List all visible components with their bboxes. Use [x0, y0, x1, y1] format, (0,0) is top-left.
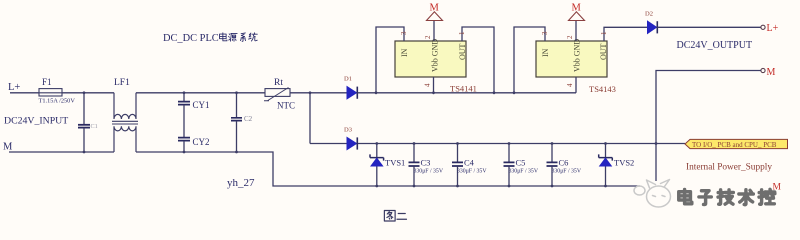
bottom rail (M) — [9, 152, 762, 186]
svg-text:OUT: OUT — [599, 43, 608, 60]
capacitor CY1 — [178, 93, 210, 137]
svg-text:Vbb GND: Vbb GND — [431, 39, 440, 72]
svg-text:OUT: OUT — [458, 43, 467, 60]
svg-text:CY2: CY2 — [193, 137, 210, 147]
svg-text:4: 4 — [424, 83, 432, 87]
watermark text 电子技术控 — [679, 189, 775, 204]
svg-text:IN: IN — [541, 48, 550, 57]
junction C1 top — [83, 91, 86, 94]
pin 2 wire (GND2) — [575, 21, 577, 42]
top winding — [114, 93, 136, 119]
terminal L+ output — [761, 23, 779, 34]
junction C1 bottom — [83, 151, 86, 154]
second rail — [310, 143, 685, 145]
svg-text:2: 2 — [424, 35, 432, 39]
svg-text:C3: C3 — [421, 158, 431, 168]
regulator U2 TS4143 — [536, 39, 616, 94]
pin 3 wire (IN2) — [514, 27, 545, 93]
svg-text:yh_27: yh_27 — [227, 177, 255, 189]
svg-text:C5: C5 — [516, 158, 526, 168]
capacitor C5 — [504, 142, 539, 186]
junction verticals bottom rail — [375, 185, 378, 188]
svg-text:Vbb GND: Vbb GND — [573, 39, 582, 72]
svg-text:L+: L+ — [8, 82, 20, 93]
svg-text:M: M — [773, 183, 782, 193]
svg-text:T1.15A /250V: T1.15A /250V — [39, 98, 76, 105]
junction cross at 656 — [655, 142, 658, 145]
regulator U1 TS4141 — [395, 39, 477, 94]
pin 2 wire (GND) — [433, 21, 435, 42]
svg-text:Rt: Rt — [274, 78, 283, 88]
wire tap down to second rail — [309, 93, 311, 144]
svg-text:M: M — [430, 3, 440, 14]
svg-text:IN: IN — [400, 48, 409, 57]
terminal M output — [761, 67, 776, 78]
svg-text:C2: C2 — [244, 115, 253, 123]
junction C2 top — [235, 91, 238, 94]
svg-text:M: M — [572, 3, 582, 14]
svg-text:330μF / 35V: 330μF / 35V — [552, 169, 582, 175]
power symbol M (U2) — [569, 3, 585, 21]
svg-text:3: 3 — [400, 31, 408, 35]
junction second-rail tap — [309, 91, 312, 94]
svg-text:1: 1 — [458, 31, 466, 35]
thermistor Rt — [264, 78, 295, 111]
wire L+ to fuse — [10, 92, 39, 94]
svg-text:TVS2: TVS2 — [614, 158, 634, 168]
capacitor C4 — [452, 142, 487, 186]
wire M terminal down to bottom rail — [656, 71, 761, 187]
wire D2 to L+ terminal — [657, 26, 760, 28]
svg-text:DC_DC PLC: DC_DC PLC — [163, 33, 219, 44]
wire Rt to D1 — [290, 92, 347, 94]
wire LF1 to Rt — [136, 92, 265, 94]
wire D1 to rail end — [357, 92, 576, 94]
capacitor C6 — [547, 142, 582, 186]
bottom winding — [114, 126, 136, 152]
svg-text:TS4143: TS4143 — [589, 84, 616, 94]
svg-text:Internal Power_Supply: Internal Power_Supply — [686, 163, 772, 173]
svg-text:C6: C6 — [559, 158, 569, 168]
svg-text:D2: D2 — [645, 11, 653, 18]
pin 4 wire (Vbb2) — [575, 77, 577, 93]
junction C2 bottom — [235, 151, 238, 154]
svg-text:L+: L+ — [767, 23, 779, 34]
flag TO I/O_PCB and CPU_PCB — [685, 139, 788, 149]
svg-text:330μF / 35V: 330μF / 35V — [457, 169, 487, 175]
label 图二 — [384, 211, 406, 222]
capacitor C3 — [409, 142, 444, 186]
svg-text:F1: F1 — [42, 77, 52, 87]
diode D1 — [344, 76, 357, 99]
TVS1 — [370, 142, 405, 186]
core lines — [112, 121, 138, 124]
junction CY top — [183, 91, 186, 94]
svg-text:M: M — [767, 67, 776, 78]
svg-text:C1: C1 — [91, 123, 98, 130]
svg-text:CY1: CY1 — [193, 100, 210, 110]
svg-text:TVS1: TVS1 — [385, 158, 405, 168]
svg-text:D3: D3 — [344, 127, 352, 134]
capacitor C1 — [78, 93, 98, 152]
svg-text:DC24V_OUTPUT: DC24V_OUTPUT — [677, 40, 753, 51]
pin 4 wire (Vbb) — [433, 77, 435, 93]
title text DC_DC PLC电源系统 — [163, 33, 257, 44]
capacitor CY2 — [178, 137, 210, 152]
pin 1 wire (OUT2) — [604, 27, 648, 41]
svg-text:330μF / 35V: 330μF / 35V — [509, 169, 539, 175]
TVS2 — [599, 142, 635, 186]
svg-text:1: 1 — [600, 31, 608, 35]
svg-text:3: 3 — [541, 31, 549, 35]
svg-text:2: 2 — [566, 35, 574, 39]
svg-text:LF1: LF1 — [114, 78, 130, 88]
watermark backdrop — [640, 181, 800, 215]
capacitor C2 — [231, 93, 253, 152]
svg-text:DC24V_INPUT: DC24V_INPUT — [4, 116, 68, 127]
diode D2 — [645, 11, 657, 34]
wire fuse to LF1 — [62, 92, 114, 94]
terminal M bottom — [773, 183, 782, 193]
power symbol M (U1) — [427, 3, 443, 21]
pin 1 wire (OUT) — [462, 27, 494, 93]
junction CY2 bottom — [183, 151, 186, 154]
svg-text:NTC: NTC — [277, 101, 295, 111]
svg-text:C4: C4 — [464, 158, 475, 168]
diode D3 — [344, 127, 357, 150]
svg-text:D1: D1 — [344, 76, 352, 83]
fuse F1 — [39, 77, 76, 105]
svg-text:TO I/O_ PCB and CPU_ PCB: TO I/O_ PCB and CPU_ PCB — [692, 141, 777, 149]
choke LF1 — [112, 78, 138, 152]
svg-text:330μF / 35V: 330μF / 35V — [414, 169, 444, 175]
pin 3 wire (IN) — [376, 27, 404, 93]
svg-text:TS4141: TS4141 — [450, 84, 477, 94]
watermark logo cat — [634, 180, 671, 208]
svg-text:M: M — [3, 142, 13, 153]
svg-text:4: 4 — [566, 83, 574, 87]
